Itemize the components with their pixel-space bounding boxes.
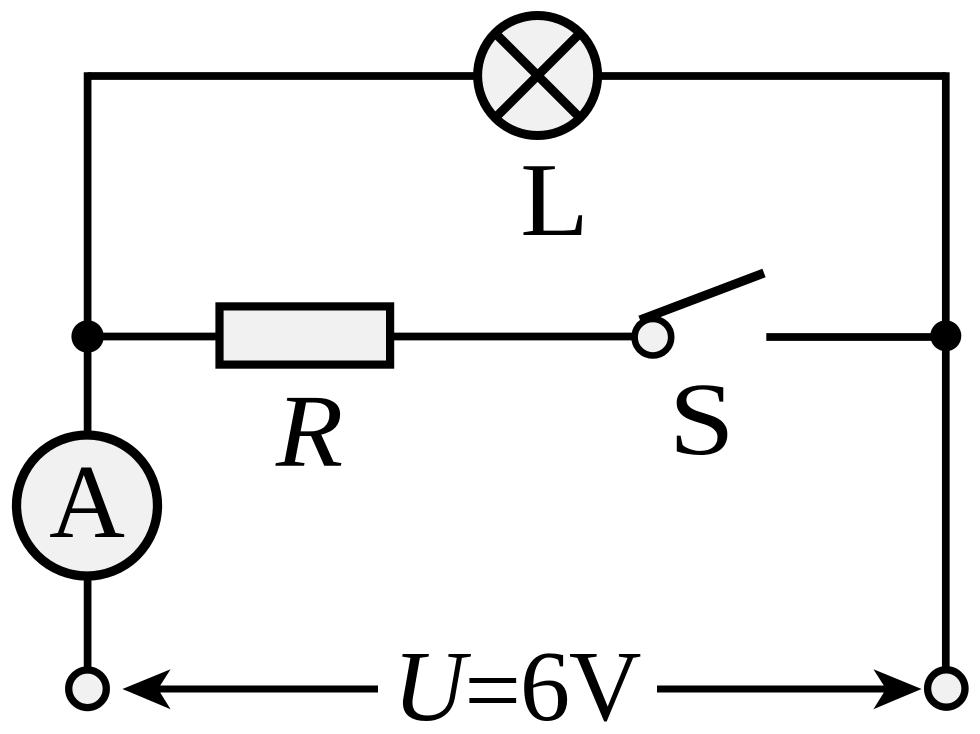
wire: left vertical from top corner down to ammeter	[84, 72, 92, 437]
arrow: left-pointing arrowhead of U dimension line	[122, 669, 170, 709]
wire: middle horizontal from resistor to switch	[394, 333, 634, 341]
terminal: right open circle	[928, 670, 965, 707]
wire: right arrow shaft	[657, 686, 888, 693]
switch S: lever arm	[640, 273, 764, 320]
wire: left arrow shaft	[156, 686, 378, 693]
arrow: right-pointing arrowhead of U dimension line	[873, 669, 921, 709]
switch S: pivot circle	[635, 319, 672, 356]
svg-text:L: L	[520, 141, 589, 258]
wire: top horizontal from left corner to right corner	[88, 72, 946, 80]
wire: right vertical from top corner down to terminal	[942, 72, 950, 668]
wire: middle horizontal from switch to right node	[766, 333, 946, 341]
ammeter A: circle	[17, 435, 158, 576]
wire: middle horizontal from left node to resistor	[88, 333, 219, 341]
svg-text:A: A	[49, 443, 125, 560]
lamp L: circle with cross	[478, 16, 598, 136]
wire: left vertical from ammeter down to terminal	[84, 575, 92, 668]
svg-text:U=6V: U=6V	[393, 630, 641, 734]
svg-text:S: S	[669, 363, 735, 478]
resistor R: rectangle	[220, 306, 391, 364]
svg-text:R: R	[275, 375, 343, 490]
node: right junction dot	[930, 320, 961, 351]
node: left junction dot	[71, 320, 103, 352]
terminal: left open circle	[69, 670, 107, 708]
